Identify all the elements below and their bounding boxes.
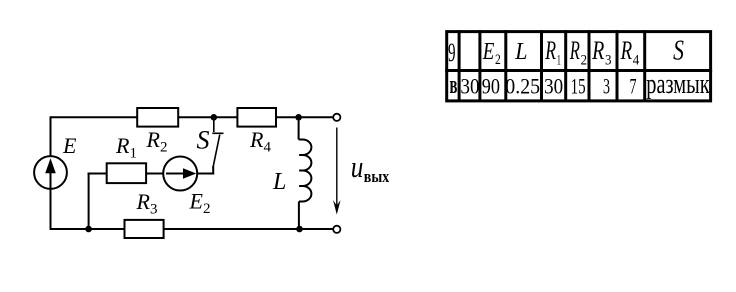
wire mid branch right bbox=[146, 173, 163, 175]
table header R4 bbox=[620, 36, 640, 69]
table header R2 bbox=[569, 36, 587, 69]
node A junction dot bbox=[211, 114, 218, 121]
switch S stub from node A bbox=[213, 118, 215, 132]
resistor R4 bbox=[237, 108, 276, 127]
switch S fixed contact tick bbox=[212, 132, 223, 134]
resistor R1 bbox=[107, 163, 146, 183]
svg-text:7: 7 bbox=[630, 74, 637, 99]
svg-text:R3: R3 bbox=[136, 189, 158, 218]
inductor L bbox=[299, 140, 312, 202]
switch S blade bbox=[213, 135, 220, 167]
svg-text:u: u bbox=[351, 149, 364, 184]
svg-text:L: L bbox=[514, 39, 527, 65]
svg-text:R: R bbox=[569, 36, 580, 65]
svg-text:S: S bbox=[197, 126, 210, 155]
node B junction dot bbox=[295, 114, 302, 121]
svg-text:R: R bbox=[620, 36, 632, 65]
wire riser from bottom node C bbox=[88, 173, 90, 230]
svg-text:30: 30 bbox=[461, 74, 480, 99]
wire inductor top lead bbox=[298, 117, 300, 139]
wire left vertical lower bbox=[50, 189, 52, 231]
svg-text:вых: вых bbox=[364, 167, 390, 186]
arrow u_vyh bbox=[333, 128, 341, 215]
wire top left horizontal bbox=[51, 116, 138, 118]
svg-text:E: E bbox=[62, 133, 77, 158]
resistor R3 bbox=[125, 220, 164, 238]
svg-text:2: 2 bbox=[495, 52, 501, 68]
svg-text:R4: R4 bbox=[249, 127, 271, 156]
svg-text:в: в bbox=[450, 70, 458, 99]
svg-text:30: 30 bbox=[544, 74, 563, 99]
resistor R2 bbox=[137, 108, 178, 127]
svg-text:9: 9 bbox=[448, 38, 456, 67]
svg-text:R: R bbox=[591, 36, 604, 65]
svg-text:0.25: 0.25 bbox=[505, 74, 540, 99]
svg-text:E2: E2 bbox=[189, 189, 211, 218]
wire inductor bottom lead bbox=[298, 202, 300, 230]
wire switch riser bbox=[212, 166, 214, 175]
wire bottom right horizontal bbox=[164, 228, 333, 230]
source E2 bbox=[163, 157, 197, 191]
svg-text:E: E bbox=[482, 39, 495, 65]
svg-text:L: L bbox=[272, 169, 286, 195]
svg-text:3: 3 bbox=[603, 74, 610, 99]
table header E2 bbox=[482, 39, 501, 68]
wire mid branch left bbox=[88, 173, 107, 175]
node D junction dot bbox=[296, 226, 303, 233]
wire left vertical upper bbox=[50, 116, 52, 157]
wire top right horizontal bbox=[276, 116, 333, 118]
svg-text:размык: размык bbox=[646, 69, 710, 100]
svg-text:R: R bbox=[545, 36, 557, 65]
svg-text:90: 90 bbox=[482, 74, 500, 99]
terminal bottom right bbox=[333, 226, 340, 233]
svg-text:3: 3 bbox=[605, 53, 612, 69]
svg-text:S: S bbox=[673, 35, 684, 67]
svg-text:1: 1 bbox=[557, 53, 561, 69]
table header R3 bbox=[591, 36, 611, 69]
wire top middle horizontal bbox=[178, 116, 237, 118]
svg-text:R2: R2 bbox=[146, 127, 168, 156]
wire E2 to switch bbox=[197, 173, 214, 175]
node C junction dot bbox=[85, 226, 92, 233]
svg-text:15: 15 bbox=[571, 74, 586, 99]
terminal top right bbox=[333, 114, 340, 121]
wire bottom left horizontal bbox=[50, 228, 125, 230]
source E bbox=[34, 156, 67, 189]
svg-text:4: 4 bbox=[633, 53, 640, 69]
value table grid bbox=[445, 30, 712, 101]
svg-text:2: 2 bbox=[581, 53, 587, 69]
svg-text:R1: R1 bbox=[115, 133, 137, 162]
label u_vyh bbox=[351, 149, 390, 186]
table header R1 bbox=[545, 36, 561, 69]
